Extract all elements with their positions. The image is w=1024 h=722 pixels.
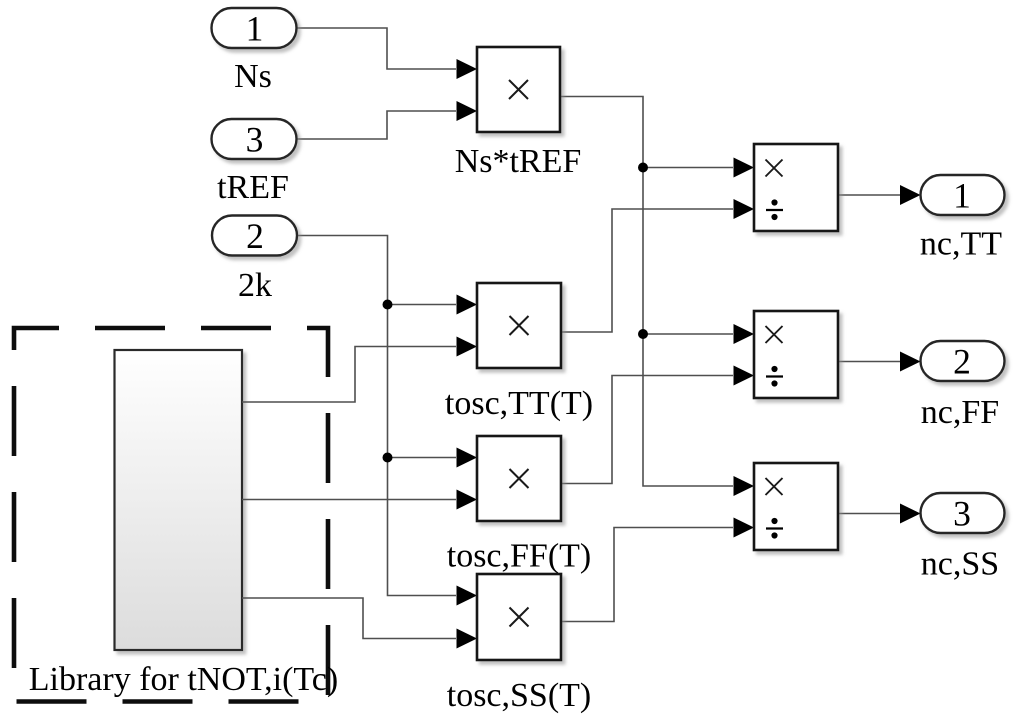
arrowhead tosc,TT in2 [457,337,478,357]
svg-text:1: 1 [953,176,971,216]
multiply sign tosc,FF [510,469,529,488]
svg-text:2k: 2k [238,267,272,304]
arrowhead outport2 [900,352,921,372]
wire: library out2 to tosc,FF input2 [242,499,456,501]
arrowhead outport3 [900,504,921,524]
arrowhead outport1 [900,185,921,205]
library subsystem block (gradient) [115,350,243,650]
arrowhead divide1 in1 [734,158,755,178]
product block tosc,FF [477,436,561,521]
wire: divide3 output to outport3 [838,513,900,515]
wire: divide2 output to outport2 [838,361,900,363]
arrowhead divide2 in1 [734,324,755,344]
output port 1 [921,175,1005,215]
arrowhead Ns*tREF in2 [457,101,478,121]
arrowhead tosc,TT in1 [457,295,478,315]
wire: Ns*tREF output trunk down to divide3 input1 [560,97,733,487]
svg-text:tREF: tREF [217,169,289,206]
junction dot Ns*tREF/divide2 [638,329,648,339]
divide block 2 [754,311,838,398]
divide block 1 [754,144,838,231]
junction dot 2k/FF [383,453,393,463]
junction dot Ns*tREF/divide1 [638,163,648,173]
svg-text:3: 3 [953,494,971,534]
multiply sign divide1 [766,160,783,177]
divide sign divide3 [766,518,783,539]
wire: 2k branch to tosc,TT input1 [388,304,457,306]
junction dot 2k/TT [383,300,393,310]
svg-text:nc,FF: nc,FF [921,394,999,431]
product block tosc,SS [477,574,561,660]
wire: tosc,FF output to divide2 input2 [561,376,733,484]
divide block 3 [754,463,838,550]
arrowhead divide3 in2 [734,518,755,538]
input port 3 [212,119,297,159]
wire: branch to divide1 input1 [643,167,733,169]
svg-text:1: 1 [246,9,264,49]
svg-text:nc,SS: nc,SS [921,546,999,583]
svg-text:Ns: Ns [234,58,272,95]
svg-text:nc,TT: nc,TT [920,226,1002,263]
arrowhead divide2 in2 [734,366,755,386]
arrowhead tosc,FF in2 [457,490,478,510]
svg-text:tosc,TT(T): tosc,TT(T) [445,385,593,422]
wire: port2 (2k) trunk down to tosc,SS input1 [296,236,456,596]
svg-text:Library for tNOT,i(Tc): Library for tNOT,i(Tc) [29,661,338,698]
output port 3 [921,493,1005,533]
svg-text:Ns*tREF: Ns*tREF [455,143,582,180]
svg-text:3: 3 [246,120,264,160]
wire: 2k branch to tosc,FF input1 [388,457,457,459]
arrowhead tosc,SS in2 [457,629,478,649]
wire: branch to divide2 input1 [643,333,733,335]
arrowhead tosc,FF in1 [457,448,478,468]
divide sign divide1 [766,199,783,220]
wire: tosc,SS output to divide3 input2 [561,528,733,622]
wire: divide1 output to outport1 [838,194,900,196]
multiply sign Ns*tREF [509,80,528,99]
multiply sign divide2 [766,326,783,343]
input port 2 [212,216,297,256]
arrowhead tosc,SS in1 [457,586,478,606]
wire: port1 to Ns*tREF input1 [297,28,457,69]
svg-text:2: 2 [246,216,264,256]
multiply sign tosc,SS [510,608,529,627]
multiply sign divide3 [766,478,783,495]
wire: library out3 to tosc,SS input2 [242,598,456,639]
output port 2 [921,341,1005,381]
svg-text:2: 2 [953,342,971,382]
arrowhead divide1 in2 [734,199,755,219]
svg-text:tosc,SS(T): tosc,SS(T) [447,677,592,714]
input port 1 [212,8,297,48]
product block Ns*tREF [477,47,560,132]
arrowhead Ns*tREF in1 [457,59,478,79]
dashed boundary box (Library group) [14,328,328,702]
arrowhead divide3 in1 [734,476,755,496]
product block tosc,TT [477,283,561,368]
multiply sign tosc,TT [510,316,529,335]
svg-text:tosc,FF(T): tosc,FF(T) [447,538,592,575]
wire: library out1 to tosc,TT input2 [242,347,456,403]
wire: port3 to Ns*tREF input2 [297,111,457,139]
divide sign divide2 [766,366,783,387]
wire: tosc,TT output to divide1 input2 [561,209,733,332]
